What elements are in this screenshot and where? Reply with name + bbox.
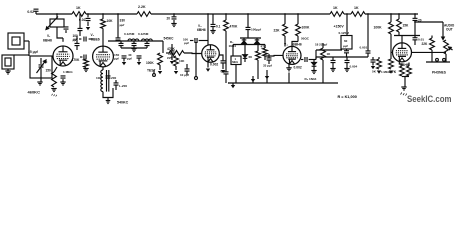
wire R10 left lead xyxy=(166,52,169,54)
wire V3 out xyxy=(219,55,223,61)
resistor R3 1K xyxy=(330,12,344,17)
ground arrow R20 xyxy=(389,71,393,74)
wire plate node y35.5 xyxy=(394,35,420,37)
wire C8 right xyxy=(89,38,93,40)
arrow volume wiper xyxy=(449,47,453,50)
wire drop x229 xyxy=(225,14,227,20)
wire C13 dn xyxy=(133,46,135,48)
wire C25 up xyxy=(268,54,270,58)
svg-text:μμf: μμf xyxy=(167,56,172,60)
wire R14 bus link xyxy=(252,76,254,83)
wire C31b dn xyxy=(372,62,374,65)
node bus junction x347 xyxy=(346,13,348,15)
capacitor C18 10uuf b xyxy=(185,69,190,71)
wire R26 stub xyxy=(408,63,410,67)
ground under V4 xyxy=(286,68,291,71)
wire bus left corner up xyxy=(228,82,229,84)
wire R22 dn xyxy=(398,32,400,36)
resistor R18 1K xyxy=(321,48,326,60)
svg-text:22K: 22K xyxy=(274,29,281,33)
wire audio tap h xyxy=(316,49,342,51)
wire V3 cathode dn xyxy=(207,62,209,68)
svg-text:50: 50 xyxy=(44,60,48,64)
wire bottom bus y83 xyxy=(228,82,338,84)
wire R15 up xyxy=(264,45,266,49)
arrow IF slug adjust xyxy=(46,17,58,30)
capacitor C9 200 xyxy=(106,76,111,78)
capacitor C14 xyxy=(145,43,150,45)
ground arrow under R9 xyxy=(158,71,162,74)
svg-text:0.1: 0.1 xyxy=(216,25,221,29)
wire tuning box gnd lead xyxy=(40,78,42,82)
wire drop x174 xyxy=(173,14,175,16)
wire cathode join xyxy=(402,76,409,78)
wire drop x368 xyxy=(367,14,369,51)
node bus junction x368 xyxy=(367,13,369,15)
wire C17 dn xyxy=(171,53,173,60)
wire C11 to bus xyxy=(117,39,119,42)
tube V3 6BH6 xyxy=(202,45,220,63)
svg-text:6BH6: 6BH6 xyxy=(43,39,52,43)
svg-text:1 MEG: 1 MEG xyxy=(63,70,73,74)
wire C21 dn xyxy=(212,27,214,30)
svg-text:PHONES: PHONES xyxy=(432,71,447,75)
wire T1 cathode to R7 xyxy=(54,67,57,72)
capacitor C12 xyxy=(119,43,124,45)
ground hatch marks xyxy=(401,93,407,96)
svg-text:2.2K: 2.2K xyxy=(138,5,146,9)
wire audio line y57 xyxy=(316,56,368,58)
wire C30 dn xyxy=(367,53,369,57)
wire R14 up xyxy=(257,45,259,52)
wire drop x213 xyxy=(212,14,214,24)
wire drop x391 xyxy=(390,14,392,22)
inductor L3 0.125MH xyxy=(142,39,153,41)
ground arrow C31b xyxy=(371,66,375,69)
svg-text:R = K1,000: R = K1,000 xyxy=(338,95,357,99)
capacitor C4 grid coupling xyxy=(75,43,80,45)
wire audio tap xyxy=(315,50,317,60)
ground under D3 xyxy=(311,71,316,74)
capacitor C19 100uuf xyxy=(195,38,197,43)
capacitor C17 10uuf xyxy=(170,51,175,53)
svg-text:0.002: 0.002 xyxy=(294,65,302,69)
wire R12 dn xyxy=(225,31,227,72)
svg-text:1N34: 1N34 xyxy=(229,44,237,48)
wire input vertical xyxy=(28,41,30,56)
wire C2 top lead xyxy=(40,58,42,64)
capacitor C5 cathode bypass xyxy=(84,55,86,60)
wire V2 cathode down xyxy=(102,67,104,70)
svg-text:10K: 10K xyxy=(179,59,184,63)
ground filter row xyxy=(131,49,136,52)
capacitor C28 under box xyxy=(344,51,349,53)
resistor R23 22K xyxy=(430,38,435,50)
capacitor C21 0.1 xyxy=(211,24,216,26)
wire C17 up xyxy=(171,44,173,51)
capacitor C24 100uuf xyxy=(246,27,251,29)
svg-text:V₄: V₄ xyxy=(284,42,288,46)
svg-text:+150V: +150V xyxy=(334,25,345,29)
svg-text:0.125M: 0.125M xyxy=(124,32,135,36)
svg-text:60: 60 xyxy=(344,39,348,43)
svg-text:0.002: 0.002 xyxy=(210,62,218,66)
wire drop x399 xyxy=(398,14,400,19)
resistor R7 150 ohm xyxy=(52,72,57,87)
wire C29b dn xyxy=(346,63,348,69)
wire drop x208 to V3 xyxy=(207,14,209,45)
wire C18 dn xyxy=(186,71,188,75)
tube V4 6BH6 xyxy=(283,46,301,64)
resistor R19 5K xyxy=(377,59,382,69)
wire V2 plate lead xyxy=(102,14,104,19)
wire drop x80 xyxy=(79,14,81,28)
test terminal circle xyxy=(195,77,198,80)
capacitor C30 0.001 xyxy=(366,51,371,53)
wire C16 dn xyxy=(138,58,140,61)
capacitor C29a bypass xyxy=(331,60,336,62)
wire IFT core b xyxy=(108,70,110,92)
node bus junction x248 xyxy=(247,13,249,15)
wire drop x347 to box xyxy=(346,29,348,36)
svg-text:0.004: 0.004 xyxy=(350,65,358,69)
svg-text:460KC: 460KC xyxy=(28,90,41,95)
wire C26 right xyxy=(309,59,316,61)
wire C10 up xyxy=(115,80,117,83)
svg-text:10K: 10K xyxy=(107,19,114,23)
wire C32 dn xyxy=(414,40,416,45)
arrow through tuning capacitor xyxy=(37,60,47,73)
wire C12 dn xyxy=(120,46,122,48)
wire D2 dn xyxy=(244,58,246,62)
svg-text:35 μμf: 35 μμf xyxy=(28,50,39,54)
svg-text:V₂: V₂ xyxy=(91,33,95,37)
svg-text:0.01: 0.01 xyxy=(221,70,227,74)
ground arrow C16 xyxy=(137,62,141,65)
ground arrow R19 xyxy=(377,71,381,74)
svg-text:D₂ 1N34: D₂ 1N34 xyxy=(305,77,317,81)
node bus junction x391 xyxy=(390,13,392,15)
ground arrow R11 xyxy=(174,71,178,74)
capacitor C11 330uuf xyxy=(116,38,121,40)
wire C7 down xyxy=(87,22,89,26)
wire cap to line xyxy=(346,53,348,57)
svg-text:15K: 15K xyxy=(403,24,410,28)
wire R24 dn xyxy=(445,54,447,62)
resistor R2 2.2K xyxy=(137,12,151,17)
ground arrow below bus xyxy=(231,85,235,88)
wire C20 dn xyxy=(173,20,175,24)
wire R16 dn xyxy=(284,36,286,47)
capacitor C3 trimmer xyxy=(64,27,69,29)
wire R21 dn xyxy=(390,34,392,59)
wire R25 dn xyxy=(404,77,406,87)
resistor R6 cathode xyxy=(84,59,89,68)
diode D3 1N34 xyxy=(312,62,317,66)
wire V4 gnd to bus xyxy=(288,73,290,84)
ground arrow x267 xyxy=(265,76,269,79)
wire C15 dn xyxy=(123,58,125,61)
resistor R14 68K xyxy=(256,51,261,60)
wire drop x347 xyxy=(346,14,348,29)
antenna jack inner box xyxy=(12,37,20,45)
ground arrow under C17 xyxy=(170,61,174,64)
wire IFT core a xyxy=(106,70,108,92)
wire R15 dn xyxy=(264,56,266,60)
wire top bus seg2 xyxy=(86,13,137,15)
wire C4 up xyxy=(76,36,78,43)
svg-text:0.125M: 0.125M xyxy=(339,31,350,35)
svg-text:μμf: μμf xyxy=(343,44,348,48)
wire R11 dn xyxy=(175,66,177,70)
wire drop x248 xyxy=(247,14,249,27)
wire left link y55 xyxy=(14,54,29,56)
wire C7 drop xyxy=(87,14,89,17)
capacitor C7 0.02 xyxy=(86,18,91,20)
resistor R10 470K xyxy=(169,51,184,56)
resistor R11 10K xyxy=(174,56,179,66)
wire drop x285 xyxy=(284,14,286,24)
tuning capacitor shield box xyxy=(30,56,52,78)
svg-text:100K: 100K xyxy=(302,26,311,30)
svg-text:470K: 470K xyxy=(230,25,239,29)
wire V5 cathode dn xyxy=(399,62,402,67)
wire D1a dn xyxy=(243,43,245,46)
node bus junction x208 xyxy=(207,13,209,15)
ground bottom right xyxy=(401,87,406,90)
wire C19 left xyxy=(190,40,193,42)
wire C25 dn xyxy=(268,60,270,64)
capacitor C15 150uuf xyxy=(122,56,127,58)
svg-text:150: 150 xyxy=(46,69,52,73)
svg-text:50ΩC: 50ΩC xyxy=(301,37,310,41)
node bus junction x88 xyxy=(87,13,89,15)
wire C31b up xyxy=(372,57,374,60)
svg-text:200: 200 xyxy=(111,76,116,80)
node bus junction x174 xyxy=(173,13,175,15)
svg-text:100K: 100K xyxy=(146,61,154,65)
wire C24 dn to det xyxy=(247,30,249,38)
resistor R21 100K xyxy=(389,22,394,34)
phones jack terminal a xyxy=(436,58,439,61)
svg-text:OUT: OUT xyxy=(446,28,453,32)
svg-text:68: 68 xyxy=(249,55,253,59)
diode D1b 1N34 xyxy=(255,40,260,44)
wire grid tap xyxy=(391,51,393,53)
wire C6 dn xyxy=(62,79,64,82)
wire C4b down xyxy=(79,31,81,36)
wire C4 down xyxy=(76,46,78,50)
capacitor C13 xyxy=(132,43,137,45)
wire C19 dn arrow xyxy=(195,42,197,76)
wire screen bus y41 xyxy=(108,40,163,42)
node bus junction x103 xyxy=(102,13,104,15)
wire C32 up xyxy=(414,36,416,38)
wire C31 dn xyxy=(414,21,416,36)
ground under C29b xyxy=(344,69,349,72)
svg-text:470K: 470K xyxy=(167,47,176,51)
ground arrow R14 on bus xyxy=(251,79,255,82)
svg-text:SeekIC.com: SeekIC.com xyxy=(407,94,452,104)
capacitor C31b small xyxy=(371,60,376,62)
wire C12 lead xyxy=(120,41,122,43)
resistor R22 15K xyxy=(397,19,402,32)
wire C2 bottom lead xyxy=(40,68,42,78)
svg-text:0.001: 0.001 xyxy=(360,46,368,50)
wire IFT bottom bracket xyxy=(103,88,113,98)
wire top bus seg4 xyxy=(344,13,351,15)
capacitor C29b 0.004 xyxy=(345,60,350,62)
ground hatch marks left xyxy=(52,94,57,97)
wire IFT bottom xyxy=(107,98,109,101)
tube V2 6BE6 xyxy=(93,46,114,67)
svg-text:1K: 1K xyxy=(333,6,338,10)
node audio tap xyxy=(414,21,416,23)
wire V5 out h xyxy=(412,51,447,53)
capacitor C22 0.002 xyxy=(221,61,226,63)
capacitor C23 0.01 xyxy=(224,72,229,74)
capacitor C25 33uuf xyxy=(267,58,272,60)
svg-text:6BH6: 6BH6 xyxy=(197,28,206,32)
wire audio tap v xyxy=(315,57,317,60)
ground arrow under V3 xyxy=(206,69,210,72)
wire C1 lead xyxy=(35,11,37,14)
wire C29a dn xyxy=(332,63,334,69)
wire D1b up xyxy=(256,38,258,40)
svg-text:100K: 100K xyxy=(374,26,383,30)
capacitor C31 20 xyxy=(413,18,418,20)
resistor R16 22K xyxy=(283,24,288,36)
wire R10 to V3 grid xyxy=(184,52,202,55)
resistor R15 47K xyxy=(263,48,268,56)
resistor R13 1 MEG boxed xyxy=(231,56,241,65)
wire V4 cathode dn xyxy=(288,63,290,68)
ground arrow C22 xyxy=(221,70,225,73)
ground arrow under C7 xyxy=(86,27,90,30)
wire V4 plate link xyxy=(292,42,298,47)
capacitor C2 tuning variable xyxy=(39,65,44,67)
capacitor C10 L-200 pad xyxy=(114,83,119,85)
ground under tuning box xyxy=(37,82,42,85)
ground under IFT xyxy=(106,101,111,104)
wire D1a up xyxy=(243,38,245,40)
svg-text:1K: 1K xyxy=(76,6,81,10)
svg-text:1K: 1K xyxy=(354,6,359,10)
wire top bus seg5 xyxy=(365,13,418,15)
phono jack inner box xyxy=(5,58,11,66)
wire C22 dn xyxy=(222,63,224,69)
ground under C21 xyxy=(210,31,215,34)
resistor R25 4.7K xyxy=(400,66,405,76)
svg-text:20: 20 xyxy=(167,17,171,21)
resistor R26 cathode bypass xyxy=(407,66,412,76)
wire R14 dn xyxy=(257,60,259,79)
ground under C20 xyxy=(171,24,176,27)
inductor L4 IF can boxed 60uuf xyxy=(341,36,352,50)
svg-text:540KC: 540KC xyxy=(117,101,129,105)
wire can corner xyxy=(162,41,164,53)
svg-text:MEG: MEG xyxy=(232,60,238,64)
wire drop x118 xyxy=(117,14,119,38)
resistor R1 1K xyxy=(72,12,86,17)
capacitor C1 0.02 bus left end xyxy=(34,9,39,11)
node bus junction x399 xyxy=(398,13,400,15)
resistor R9 100K xyxy=(158,53,163,65)
svg-text:0.02: 0.02 xyxy=(79,18,86,22)
svg-text:μμf: μμf xyxy=(127,57,132,61)
node bus junction x226 xyxy=(225,13,227,15)
phones jack terminal b xyxy=(443,58,446,61)
wire R5 top lead xyxy=(56,14,58,19)
node bus junction x415 xyxy=(414,13,416,15)
svg-text:μμf: μμf xyxy=(114,57,119,61)
wire R18 up xyxy=(322,43,324,48)
wire phones bus xyxy=(426,61,450,63)
wire filter join y48 xyxy=(121,47,147,49)
svg-text:6BH6: 6BH6 xyxy=(293,42,302,46)
wire det top y38 xyxy=(240,37,261,39)
wire C8 left xyxy=(79,38,81,40)
wire V1 plate to screen box xyxy=(57,27,63,38)
wire R17 dn xyxy=(297,36,299,42)
svg-text:6BE6: 6BE6 xyxy=(91,38,100,42)
wire top bus seg3 xyxy=(151,13,330,15)
wire phono down xyxy=(7,69,9,71)
wire det out to V4 grid xyxy=(265,54,283,57)
ground under C6 xyxy=(60,82,65,85)
wire C10 dn xyxy=(115,85,117,90)
wire R19 up xyxy=(378,57,380,59)
wire audio out h xyxy=(415,21,443,23)
wire C14 dn xyxy=(146,46,148,48)
inductor L1 IF pri xyxy=(101,70,103,92)
svg-text:22K: 22K xyxy=(422,42,429,46)
capacitor C16 40uuf xyxy=(137,56,142,58)
capacitor C8 100uuf osc grid xyxy=(84,37,86,42)
wire C5 left lead xyxy=(80,56,82,58)
inductor L2 0.125MH xyxy=(128,39,139,41)
wire D3 dn xyxy=(313,66,315,70)
capacitor C26 0.002 xyxy=(305,57,307,62)
arrow audio jack xyxy=(442,33,445,40)
wire R23 dn xyxy=(431,50,433,62)
wire R8 down to plate xyxy=(102,29,104,47)
wire C13 lead xyxy=(133,41,135,43)
svg-text:330: 330 xyxy=(120,19,126,23)
wire R23 up xyxy=(431,36,433,39)
node bus junction x118 xyxy=(117,13,119,15)
wire R13 dn xyxy=(235,65,237,84)
ground under C29a xyxy=(330,69,335,72)
wire drop x302 xyxy=(297,14,299,24)
wire C23 dn xyxy=(225,74,227,83)
ground arrow C15 xyxy=(122,62,126,65)
trimmer box xyxy=(50,19,64,27)
resistor R24 pot xyxy=(444,40,449,54)
wire C29b up xyxy=(346,57,348,60)
resistor R8 10K xyxy=(101,19,106,29)
svg-text:33 μμf: 33 μμf xyxy=(263,64,272,68)
wire drop arrow x267 xyxy=(266,70,268,83)
wire jack lead xyxy=(24,40,29,42)
node bus junction x285 xyxy=(284,13,286,15)
wire C31 up xyxy=(414,14,416,18)
resistor R12 470K xyxy=(224,20,229,31)
test point terminal xyxy=(153,74,156,77)
wire R9 dn xyxy=(159,65,161,70)
wire C14 lead xyxy=(146,41,148,43)
node bus junction x57 xyxy=(56,13,58,15)
